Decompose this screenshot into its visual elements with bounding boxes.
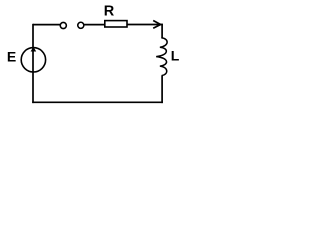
svg-text:R: R <box>104 4 115 20</box>
svg-text:L: L <box>171 47 180 63</box>
svg-text:E: E <box>7 48 16 64</box>
